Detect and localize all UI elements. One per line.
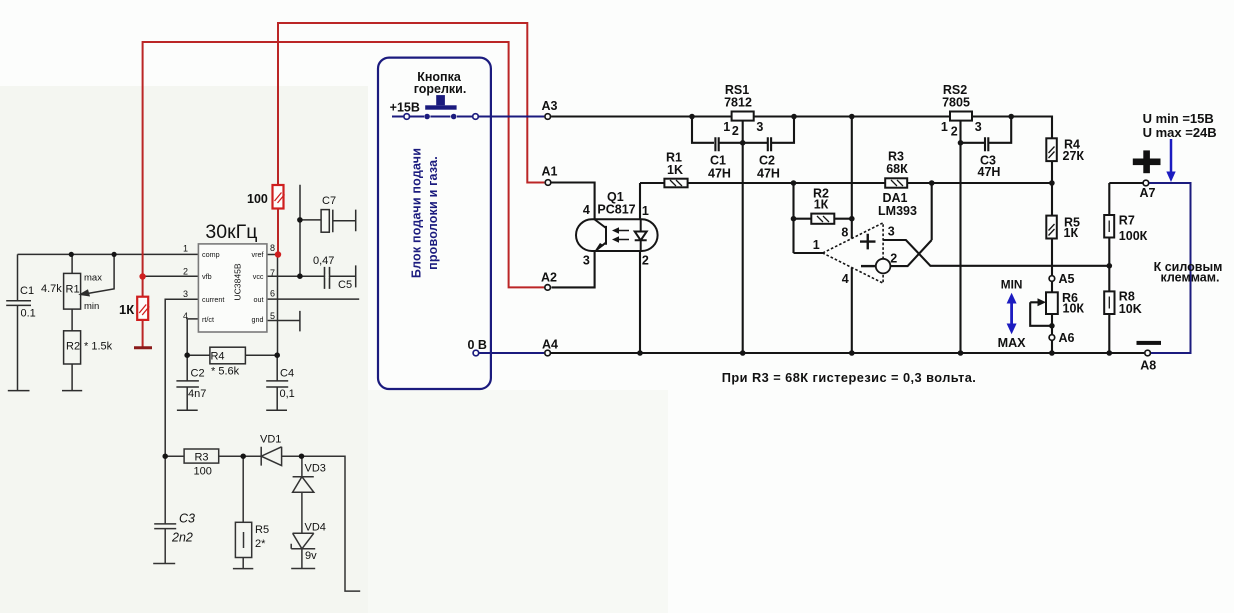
svg-text:4.7k: 4.7k: [41, 283, 62, 295]
svg-text:R1: R1: [66, 284, 80, 296]
svg-text:C2: C2: [759, 154, 775, 168]
svg-text:3: 3: [756, 120, 763, 134]
svg-text:6: 6: [270, 289, 275, 299]
svg-text:2: 2: [183, 267, 188, 277]
svg-text:comp: comp: [202, 250, 220, 259]
svg-text:C1: C1: [20, 285, 34, 297]
svg-text:проволоки и газа.: проволоки и газа.: [426, 156, 440, 270]
svg-text:100: 100: [194, 466, 212, 478]
svg-text:vcc: vcc: [253, 272, 264, 281]
svg-text:UC3845B: UC3845B: [233, 263, 243, 301]
svg-text:A5: A5: [1059, 272, 1075, 286]
svg-text:1К: 1К: [119, 302, 134, 317]
svg-text:U min =15В: U min =15В: [1143, 111, 1214, 126]
svg-text:C4: C4: [280, 368, 294, 380]
svg-text:VD1: VD1: [260, 434, 281, 446]
svg-text:MIN: MIN: [1001, 278, 1023, 292]
svg-text:R7: R7: [1119, 214, 1135, 228]
svg-text:0.1: 0.1: [21, 308, 36, 320]
svg-text:1: 1: [183, 244, 188, 254]
svg-text:VD4: VD4: [305, 522, 326, 534]
svg-text:max: max: [84, 273, 102, 284]
svg-text:min: min: [84, 301, 99, 312]
svg-text:5: 5: [270, 311, 275, 321]
svg-text:1K: 1K: [667, 163, 683, 177]
svg-text:R2: R2: [66, 341, 80, 353]
svg-text:3: 3: [583, 254, 590, 268]
svg-text:Блок подачи подачи: Блок подачи подачи: [410, 148, 424, 278]
svg-text:vfb: vfb: [202, 272, 212, 281]
svg-text:rt/ct: rt/ct: [202, 315, 214, 324]
svg-text:* 1.5k: * 1.5k: [84, 341, 113, 353]
svg-text:2: 2: [732, 124, 739, 138]
svg-text:1К: 1К: [814, 198, 829, 212]
svg-text:2: 2: [890, 252, 897, 266]
svg-text:При R3 = 68К гистерезис = 0,3: При R3 = 68К гистерезис = 0,3 вольта.: [722, 370, 977, 385]
svg-text:R4: R4: [210, 351, 224, 363]
svg-text:1: 1: [723, 120, 730, 134]
svg-text:C7: C7: [322, 195, 336, 207]
svg-text:* 5.6k: * 5.6k: [211, 366, 240, 378]
svg-text:LM393: LM393: [878, 204, 917, 218]
svg-text:10К: 10К: [1063, 302, 1085, 316]
svg-text:0 В: 0 В: [467, 338, 486, 352]
svg-text:PC817: PC817: [597, 203, 635, 217]
svg-text:R3: R3: [194, 452, 208, 464]
svg-text:0,47: 0,47: [313, 255, 334, 267]
svg-text:2: 2: [951, 125, 958, 139]
svg-text:out: out: [254, 295, 264, 304]
svg-text:3: 3: [975, 120, 982, 134]
svg-text:A1: A1: [542, 164, 558, 178]
svg-text:8: 8: [841, 225, 848, 239]
svg-text:A6: A6: [1059, 331, 1075, 345]
svg-text:8: 8: [270, 243, 275, 253]
svg-text:+15В: +15В: [390, 100, 420, 114]
svg-text:0,1: 0,1: [280, 388, 295, 400]
svg-text:9v: 9v: [305, 550, 317, 562]
svg-text:1К: 1К: [1064, 226, 1079, 240]
svg-text:3: 3: [888, 225, 895, 239]
svg-text:27К: 27К: [1063, 149, 1085, 163]
svg-text:DA1: DA1: [882, 191, 907, 205]
svg-text:30кГц: 30кГц: [205, 221, 257, 243]
svg-text:47Н: 47Н: [757, 167, 780, 181]
svg-text:7805: 7805: [942, 96, 970, 110]
svg-text:1: 1: [642, 204, 649, 218]
svg-text:7812: 7812: [724, 96, 752, 110]
svg-text:A2: A2: [541, 271, 557, 285]
svg-text:A7: A7: [1140, 186, 1156, 200]
svg-text:100: 100: [247, 192, 268, 206]
svg-text:U max =24В: U max =24В: [1143, 125, 1217, 140]
svg-text:current: current: [202, 295, 224, 304]
svg-text:C5: C5: [338, 279, 352, 291]
svg-text:MAX: MAX: [998, 336, 1027, 350]
svg-text:2n2: 2n2: [171, 531, 193, 545]
svg-text:4: 4: [583, 203, 590, 217]
svg-text:100К: 100К: [1119, 229, 1148, 243]
svg-text:R5: R5: [255, 524, 269, 536]
svg-text:vref: vref: [252, 250, 264, 259]
svg-text:1: 1: [813, 238, 820, 252]
svg-text:A3: A3: [542, 99, 558, 113]
svg-text:горелки.: горелки.: [414, 82, 467, 96]
svg-text:4: 4: [183, 311, 188, 321]
svg-text:C3: C3: [179, 512, 195, 526]
svg-text:A8: A8: [1140, 359, 1156, 373]
svg-text:4: 4: [842, 272, 849, 286]
svg-text:1: 1: [941, 120, 948, 134]
svg-text:A4: A4: [542, 338, 558, 352]
svg-text:клеммам.: клеммам.: [1161, 271, 1220, 285]
svg-text:2: 2: [642, 254, 649, 268]
svg-text:47Н: 47Н: [978, 165, 1001, 179]
svg-text:VD3: VD3: [305, 463, 326, 475]
svg-text:4n7: 4n7: [188, 388, 206, 400]
svg-text:3: 3: [183, 289, 188, 299]
svg-text:47Н: 47Н: [708, 167, 731, 181]
svg-text:gnd: gnd: [252, 315, 264, 324]
svg-text:7: 7: [270, 268, 275, 278]
svg-text:68К: 68К: [886, 162, 908, 176]
svg-text:C2: C2: [191, 368, 205, 380]
svg-text:10K: 10K: [1119, 302, 1142, 316]
svg-text:2*: 2*: [255, 538, 266, 550]
svg-text:C1: C1: [710, 154, 726, 168]
